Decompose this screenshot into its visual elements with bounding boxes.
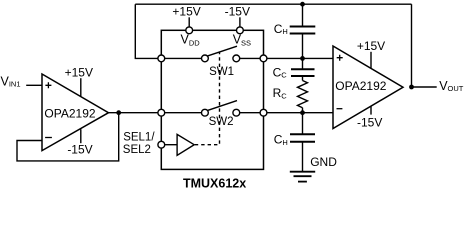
wire SW1 row to opamp2 + input xyxy=(267,57,333,59)
wire VIN1 to + input xyxy=(26,84,42,86)
wire SW2 row left segment xyxy=(165,112,202,114)
wire feedback loop opamp1 xyxy=(17,113,119,161)
dashed control line xyxy=(195,52,220,145)
plus U2 xyxy=(337,55,343,61)
pole SW2 right xyxy=(233,109,240,116)
wire SW1 row left segment xyxy=(165,57,202,59)
IC box TMUX612x xyxy=(161,30,263,169)
svg-text:SW2: SW2 xyxy=(209,116,234,128)
svg-text:SEL1/: SEL1/ xyxy=(123,132,155,144)
wire row2 node to CH2 top xyxy=(302,113,304,135)
capacitor CC xyxy=(291,69,315,76)
node top rail xyxy=(300,2,305,7)
node row2 xyxy=(300,110,305,115)
terminal VSS xyxy=(237,27,244,34)
op-amp U1 OPA2192 xyxy=(42,74,109,151)
svg-text:SW1: SW1 xyxy=(209,66,234,78)
wire VDD stub xyxy=(188,17,190,27)
wire RC bottom to row2 node xyxy=(302,108,304,113)
svg-text:GND: GND xyxy=(310,155,337,169)
svg-text:-15V: -15V xyxy=(225,5,250,19)
switch SW2 arm xyxy=(208,101,237,111)
wire row1 node to CC top xyxy=(302,58,304,69)
buffer SEL driver xyxy=(177,134,194,155)
wire +15V stub opamp2 xyxy=(370,52,372,69)
terminal SW1 drain left xyxy=(158,55,165,62)
svg-text:+15V: +15V xyxy=(172,5,200,19)
wire top rail xyxy=(135,3,411,5)
pole SW1 left xyxy=(202,55,209,62)
svg-text:+15V: +15V xyxy=(357,39,385,53)
svg-text:SEL2: SEL2 xyxy=(123,144,151,156)
capacitor CH bottom xyxy=(290,134,315,142)
svg-text:OPA2192: OPA2192 xyxy=(335,79,386,93)
capacitor CH top xyxy=(290,27,316,34)
wire top node to CH top xyxy=(302,4,304,26)
terminal SW2 source right xyxy=(260,109,267,116)
wire right rail down to output node xyxy=(411,4,413,87)
wire left rail down to SW1 source row xyxy=(135,4,158,58)
wire -15V stub opamp2 xyxy=(370,106,372,115)
resistor RC xyxy=(298,81,308,108)
pole SW1 right xyxy=(233,55,240,62)
wire VSS stub xyxy=(239,17,241,27)
wire VOUT xyxy=(412,86,437,88)
terminal SEL xyxy=(158,141,165,148)
wire SW2 row right segment xyxy=(240,112,260,114)
svg-text:-15V: -15V xyxy=(67,142,92,156)
wire -15V stub opamp1 xyxy=(80,129,82,143)
wire SW1 row right segment xyxy=(240,57,260,59)
wire CH bottom to row1 xyxy=(302,34,304,59)
wire CC bottom to RC top xyxy=(302,76,304,81)
wire CH2 bottom to ground xyxy=(302,142,304,172)
op-amp U2 OPA2192 xyxy=(333,46,403,129)
node row1 xyxy=(300,56,305,61)
minus U2 xyxy=(337,108,343,110)
wire opamp1 output to SW2 terminal xyxy=(109,112,158,114)
terminal SW2 drain left xyxy=(158,109,165,116)
terminal SW1 source right xyxy=(260,55,267,62)
svg-text:OPA2192: OPA2192 xyxy=(44,106,95,120)
node VOUT xyxy=(409,85,414,90)
node opamp1 output xyxy=(116,110,121,115)
opamp input polarity marks xyxy=(45,55,343,138)
wire SW2 row to opamp2 - input xyxy=(267,112,333,114)
svg-text:-15V: -15V xyxy=(357,116,382,130)
terminal circles xyxy=(158,27,267,148)
svg-text:+15V: +15V xyxy=(65,66,93,80)
minus U1 xyxy=(45,137,52,139)
wire +15V stub opamp1 xyxy=(80,78,82,96)
switch SW1 arm xyxy=(208,46,237,56)
ground xyxy=(290,172,315,182)
pole SW2 left xyxy=(202,109,209,116)
wire SEL to buffer xyxy=(165,144,177,146)
plus U1 xyxy=(45,82,51,88)
terminal VDD xyxy=(186,27,193,34)
svg-text:TMUX612x: TMUX612x xyxy=(183,177,246,191)
